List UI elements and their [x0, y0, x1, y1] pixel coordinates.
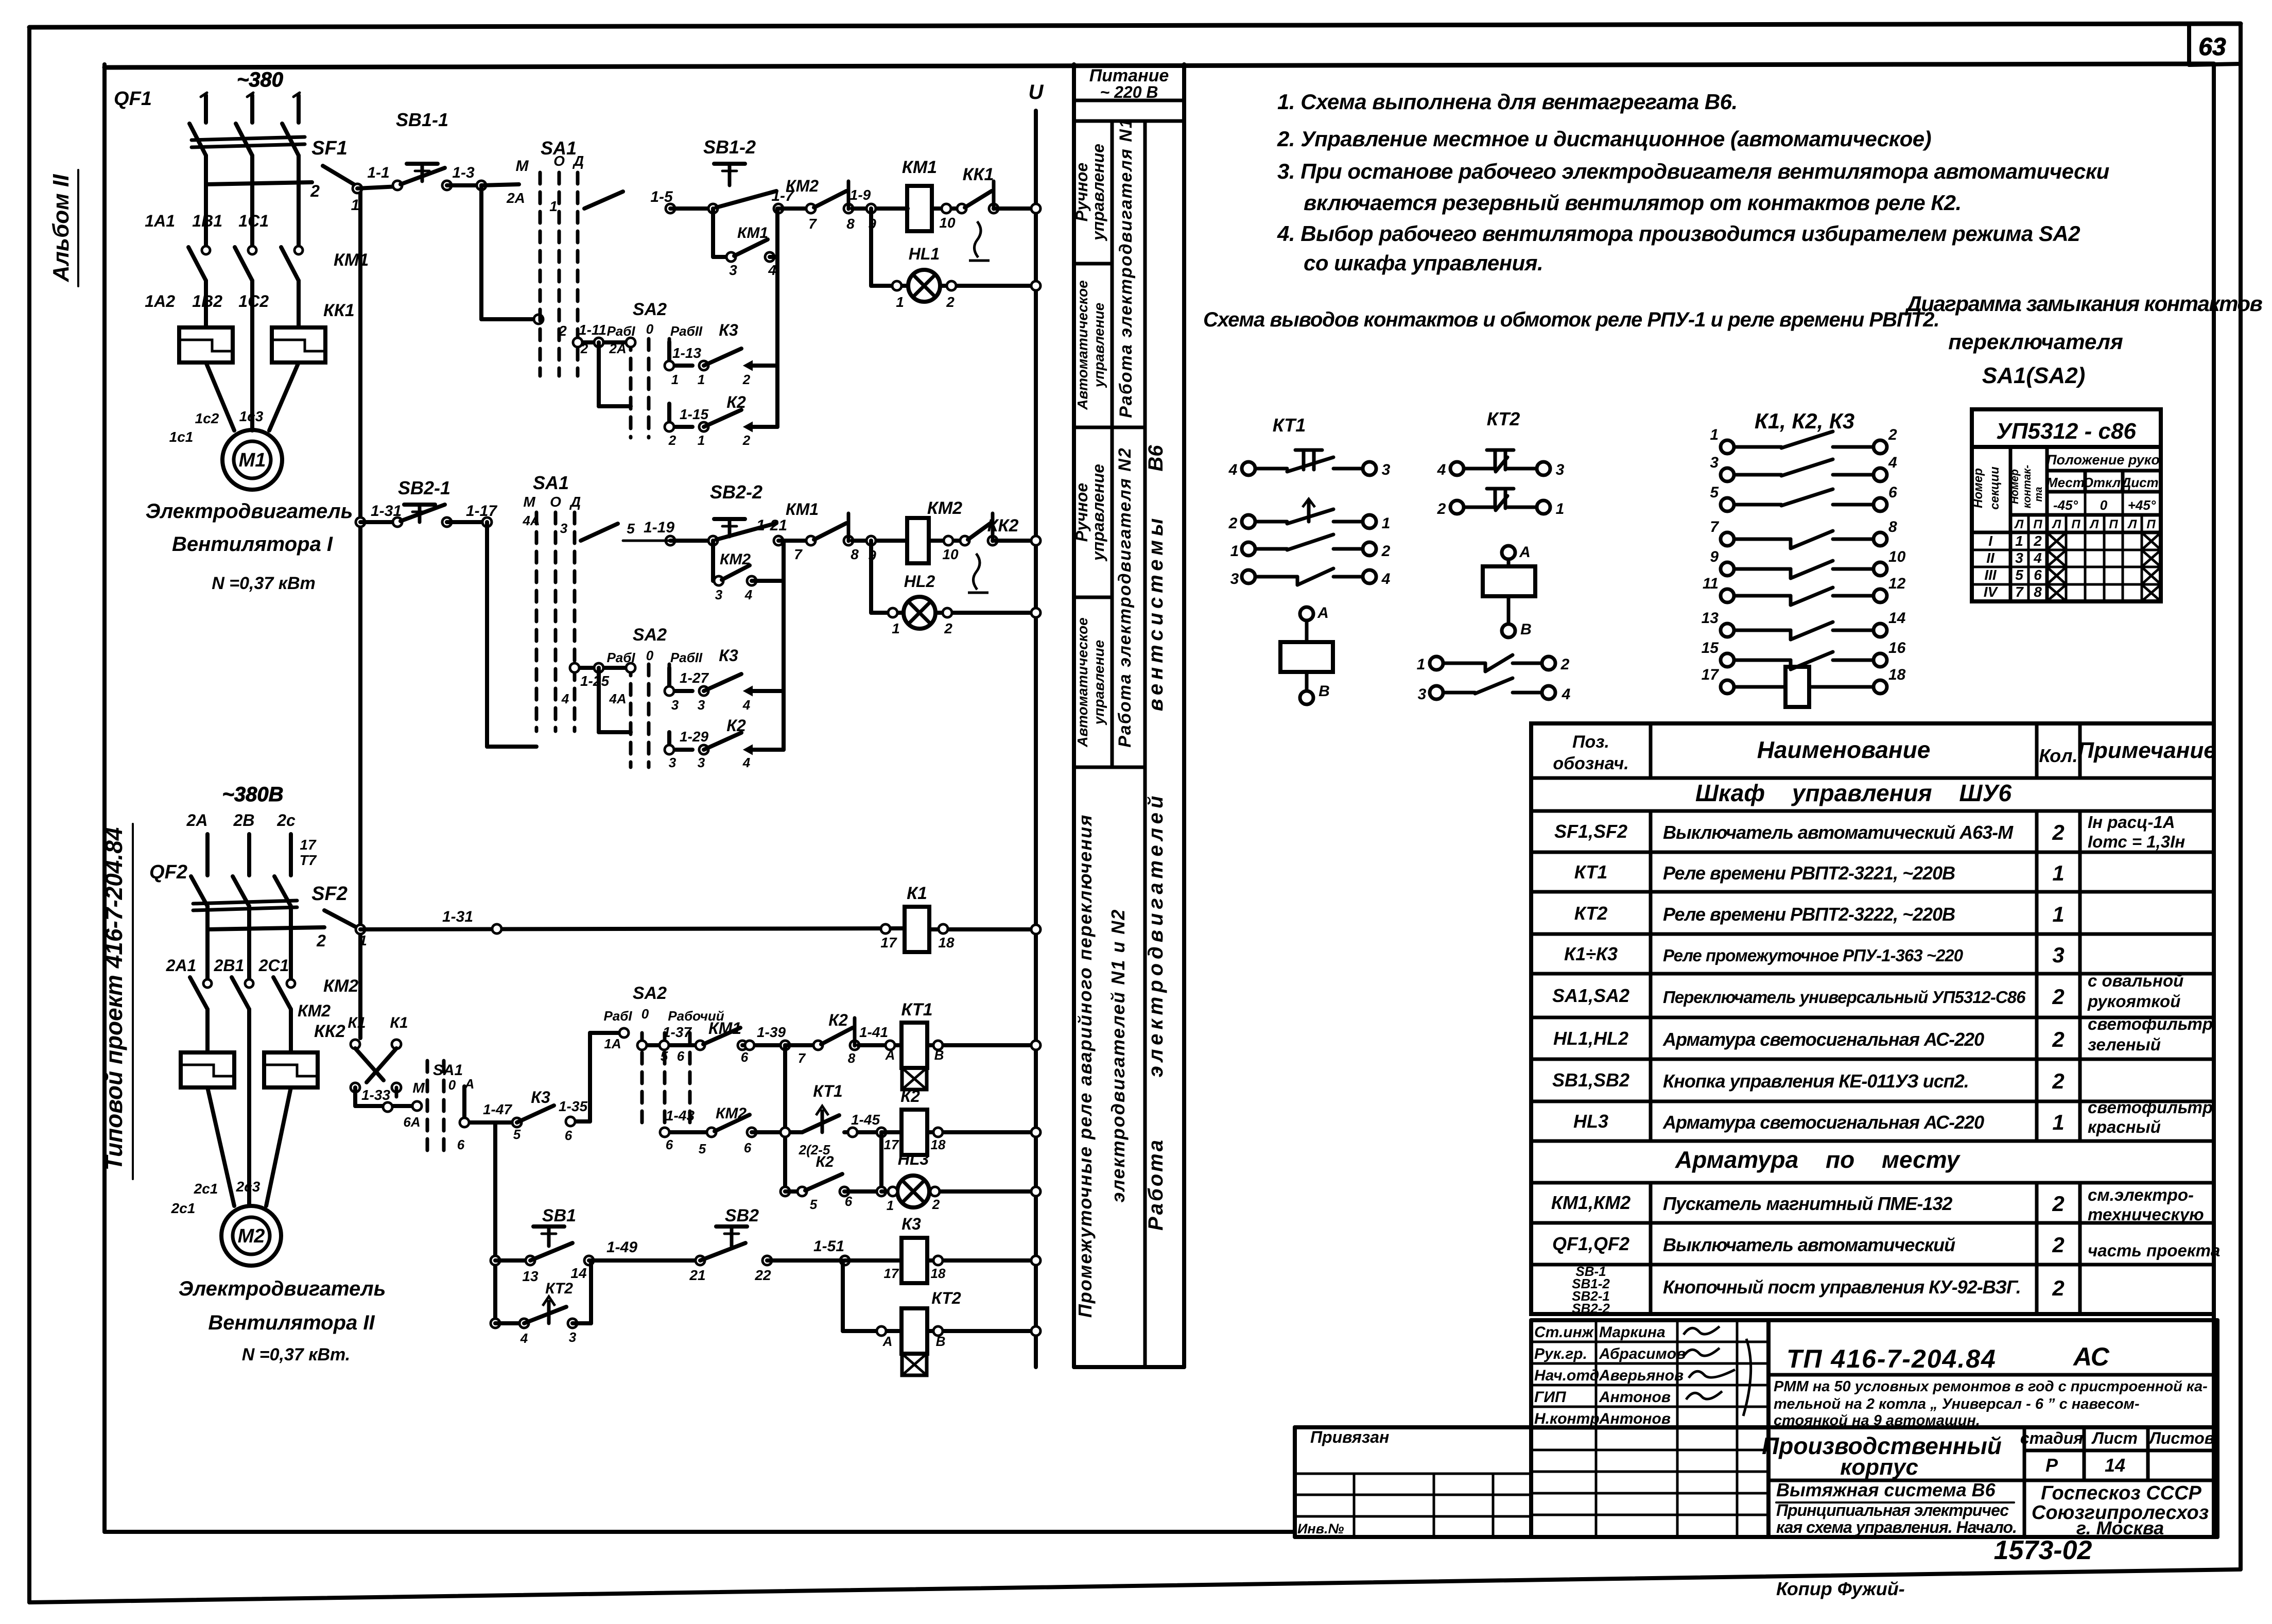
svg-text:SB2-2: SB2-2 [1572, 1301, 1610, 1316]
svg-text:управление: управление [1091, 303, 1107, 388]
svg-text:1А1: 1А1 [145, 212, 175, 230]
svg-text:1-31: 1-31 [371, 503, 402, 520]
svg-text:К1, К2, К3: К1, К2, К3 [1755, 409, 1854, 433]
svg-text:Откл.: Откл. [2083, 475, 2125, 490]
svg-text:КК2: КК2 [314, 1022, 345, 1041]
svg-text:II: II [1986, 550, 1995, 566]
svg-text:SA1: SA1 [433, 1062, 463, 1079]
svg-text:УП5312 - с86: УП5312 - с86 [1996, 419, 2136, 444]
svg-text:К3: К3 [531, 1088, 550, 1107]
svg-text:5: 5 [1710, 484, 1719, 501]
svg-text:SA2: SA2 [633, 983, 667, 1003]
svg-text:А: А [882, 1334, 893, 1349]
svg-text:6: 6 [457, 1137, 465, 1152]
svg-text:2: 2 [316, 931, 326, 950]
svg-text:М1: М1 [239, 450, 266, 471]
svg-text:Номер: Номер [2009, 469, 2021, 504]
svg-text:КМ2: КМ2 [720, 551, 751, 568]
svg-text:13: 13 [522, 1268, 539, 1284]
svg-text:SA1(SA2): SA1(SA2) [1982, 363, 2086, 388]
svg-text:17: 17 [300, 837, 317, 853]
svg-text:3: 3 [671, 697, 679, 713]
svg-text:2: 2 [946, 294, 955, 310]
svg-text:РабII: РабII [670, 323, 703, 339]
svg-text:2с1: 2с1 [171, 1200, 196, 1216]
svg-text:3: 3 [715, 587, 723, 602]
svg-text:вентсистемы: вентсистемы [1144, 514, 1167, 712]
svg-text:Аверьянов: Аверьянов [1599, 1367, 1684, 1384]
svg-text:HL1,HL2: HL1,HL2 [1553, 1028, 1628, 1049]
svg-text:1: 1 [359, 932, 367, 948]
svg-text:18: 18 [1888, 666, 1906, 683]
svg-text:1-29: 1-29 [680, 729, 708, 745]
svg-text:2А1: 2А1 [166, 956, 197, 975]
svg-text:1-15: 1-15 [680, 406, 708, 422]
svg-text:7: 7 [2015, 584, 2024, 600]
svg-text:техническую: техническую [2088, 1205, 2204, 1224]
svg-text:9: 9 [868, 547, 876, 563]
svg-text:Дист.: Дист. [2120, 475, 2162, 490]
svg-text:КМ2: КМ2 [716, 1105, 747, 1122]
svg-text:1А2: 1А2 [145, 292, 175, 310]
svg-text:Р: Р [2045, 1455, 2058, 1476]
svg-text:2: 2 [1381, 543, 1391, 560]
svg-text:Кнопка управления КЕ-011УЗ и: Кнопка управления КЕ-011УЗ исп2. [1663, 1070, 1969, 1092]
svg-text:7: 7 [1710, 519, 1719, 535]
svg-text:SF1: SF1 [311, 137, 348, 159]
svg-text:контак-: контак- [2021, 465, 2033, 508]
svg-text:2с: 2с [276, 811, 296, 830]
svg-text:III: III [1984, 567, 1997, 583]
svg-text:К1: К1 [390, 1014, 408, 1031]
svg-text:3: 3 [669, 755, 677, 770]
svg-text:SA1: SA1 [541, 137, 577, 159]
svg-text:зеленый: зеленый [2088, 1035, 2161, 1054]
svg-text:Лист: Лист [2091, 1429, 2138, 1447]
svg-text:21: 21 [689, 1267, 705, 1283]
svg-text:Шкаф управления ШУ6: Шкаф управления ШУ6 [1695, 780, 2012, 806]
svg-text:17: 17 [880, 935, 897, 951]
svg-text:КТ1: КТ1 [901, 1000, 933, 1020]
svg-text:3: 3 [569, 1329, 577, 1345]
svg-text:~ 220 В: ~ 220 В [1100, 83, 1158, 101]
svg-text:Принципиальная электричес: Принципиальная электричес [1776, 1501, 2009, 1519]
svg-text:Работа электродвигателя N2: Работа электродвигателя N2 [1115, 447, 1135, 747]
svg-text:Листов: Листов [2148, 1429, 2214, 1447]
svg-text:рукояткой: рукояткой [2087, 992, 2180, 1011]
svg-text:7: 7 [798, 1050, 806, 1066]
svg-text:Поз.: Поз. [1572, 732, 1609, 752]
svg-text:светофильтр: светофильтр [2088, 1014, 2213, 1033]
svg-text:3. При останове рабочего эле: 3. При останове рабочего электродвигател… [1277, 159, 2109, 183]
svg-text:К1÷К3: К1÷К3 [1564, 943, 1618, 964]
svg-text:Нач.отд: Нач.отд [1534, 1367, 1599, 1384]
svg-text:2А: 2А [506, 190, 525, 206]
svg-text:Арматура по месту: Арматура по месту [1675, 1146, 1961, 1173]
svg-text:6: 6 [741, 1049, 749, 1065]
svg-text:Привязан: Привязан [1310, 1428, 1389, 1446]
svg-text:1-19: 1-19 [644, 519, 674, 536]
svg-text:1-5: 1-5 [650, 188, 673, 205]
svg-text:5: 5 [699, 1141, 706, 1156]
svg-text:Автоматическое: Автоматическое [1074, 617, 1090, 747]
svg-text:4: 4 [1562, 686, 1571, 703]
svg-text:ТП 416-7-204.84: ТП 416-7-204.84 [1787, 1344, 1997, 1373]
svg-text:1: 1 [698, 372, 705, 387]
svg-text:QF2: QF2 [149, 861, 187, 883]
svg-text:7: 7 [808, 216, 817, 232]
svg-text:О: О [550, 494, 561, 510]
svg-text:3: 3 [698, 697, 705, 713]
svg-text:переключателя: переключателя [1948, 330, 2123, 354]
svg-text:Пускатель магнитный ПМЕ-132: Пускатель магнитный ПМЕ-132 [1663, 1193, 1952, 1214]
svg-text:3: 3 [1710, 454, 1719, 471]
svg-text:1. Схема выполнена для вентаг: 1. Схема выполнена для вентагрегата В6. [1277, 90, 1738, 114]
svg-text:М: М [412, 1080, 425, 1096]
svg-text:тельной на 2 котла „ Универсал: тельной на 2 котла „ Универсал - 6 ” с н… [1774, 1396, 2140, 1412]
svg-text:КМ1: КМ1 [708, 1019, 741, 1038]
svg-text:SB2-2: SB2-2 [710, 481, 762, 503]
svg-text:2. Управление местное и ди: 2. Управление местное и дистанционное (а… [1277, 127, 1931, 151]
svg-text:Т7: Т7 [300, 852, 317, 868]
svg-text:8: 8 [846, 216, 855, 232]
svg-text:2: 2 [932, 1197, 940, 1212]
svg-text:1-41: 1-41 [859, 1024, 888, 1040]
svg-text:Ручное: Ручное [1072, 163, 1091, 221]
svg-text:6А: 6А [403, 1114, 420, 1130]
svg-text:~380В: ~380В [222, 783, 284, 806]
svg-text:1: 1 [896, 294, 904, 310]
svg-text:КМ1: КМ1 [737, 224, 768, 241]
svg-text:12: 12 [1888, 575, 1906, 592]
svg-text:1: 1 [1556, 500, 1565, 517]
svg-text:А: А [885, 1047, 895, 1063]
svg-text:1-17: 1-17 [466, 503, 497, 520]
svg-text:2: 2 [742, 433, 751, 448]
svg-text:К3: К3 [901, 1215, 921, 1233]
svg-text:4: 4 [768, 262, 776, 278]
svg-text:SB1: SB1 [542, 1206, 576, 1225]
svg-text:8: 8 [851, 546, 859, 562]
svg-text:6: 6 [744, 1140, 752, 1155]
svg-text:с овальной: с овальной [2088, 971, 2183, 990]
svg-text:К3: К3 [719, 646, 738, 665]
svg-text:2с3: 2с3 [236, 1179, 261, 1195]
svg-text:2В: 2В [233, 811, 255, 830]
svg-text:6: 6 [565, 1128, 573, 1143]
svg-text:Примечание: Примечание [2077, 738, 2216, 763]
svg-text:управление: управление [1089, 464, 1107, 562]
svg-text:14: 14 [1888, 610, 1906, 627]
svg-text:1: 1 [2052, 861, 2064, 885]
svg-text:SB1,SB2: SB1,SB2 [1552, 1069, 1629, 1091]
svg-text:6: 6 [1888, 484, 1897, 501]
svg-text:3: 3 [698, 755, 705, 770]
svg-text:3: 3 [2015, 550, 2023, 566]
svg-text:К2: К2 [726, 716, 746, 735]
svg-text:Л: Л [2052, 517, 2061, 531]
svg-text:SB1-2: SB1-2 [703, 136, 756, 158]
svg-text:HL2: HL2 [904, 572, 935, 591]
svg-text:15: 15 [1702, 640, 1720, 656]
svg-text:1-37: 1-37 [663, 1024, 692, 1040]
svg-text:1-21: 1-21 [756, 517, 787, 534]
svg-text:Номер: Номер [1971, 468, 1985, 508]
svg-text:9: 9 [1710, 548, 1719, 565]
svg-text:1с1: 1с1 [169, 429, 194, 445]
svg-text:корпус: корпус [1840, 1455, 1918, 1480]
svg-text:0: 0 [646, 648, 654, 663]
svg-text:SB1-1: SB1-1 [396, 109, 448, 130]
svg-text:N =0,37 кВт.: N =0,37 кВт. [242, 1345, 351, 1364]
svg-text:-45°: -45° [2053, 497, 2078, 513]
svg-text:3: 3 [1382, 461, 1391, 478]
svg-text:Электродвигатель: Электродвигатель [146, 500, 353, 523]
svg-text:U: U [1029, 81, 1044, 103]
svg-text:Реле времени РВПТ2-3222, ~2: Реле времени РВПТ2-3222, ~220В [1663, 904, 1955, 925]
svg-text:SA2: SA2 [633, 300, 667, 319]
svg-text:4А: 4А [522, 513, 540, 528]
svg-text:1-3: 1-3 [452, 164, 475, 181]
svg-text:N =0,37 кВт: N =0,37 кВт [212, 574, 316, 593]
svg-text:П: П [2071, 517, 2080, 531]
svg-text:Мест: Мест [2046, 475, 2085, 490]
svg-text:КТ1: КТ1 [813, 1082, 842, 1100]
svg-text:та: та [2033, 487, 2044, 502]
svg-text:2: 2 [668, 433, 677, 448]
svg-text:Госпескоз СССР: Госпескоз СССР [2041, 1482, 2201, 1504]
svg-text:управление: управление [1089, 144, 1107, 241]
svg-text:SF2: SF2 [311, 883, 348, 905]
svg-text:2: 2 [2052, 1069, 2064, 1093]
svg-text:14: 14 [2105, 1455, 2125, 1476]
svg-text:9: 9 [868, 216, 876, 232]
svg-text:SA2: SA2 [633, 625, 667, 645]
svg-text:5: 5 [661, 1048, 668, 1064]
svg-text:2В1: 2В1 [214, 956, 245, 975]
svg-text:обознач.: обознач. [1553, 754, 1628, 773]
svg-text:АС: АС [2072, 1342, 2110, 1371]
svg-text:В: В [934, 1047, 944, 1063]
svg-text:2: 2 [2052, 1027, 2064, 1051]
svg-text:1В1: 1В1 [192, 212, 222, 230]
svg-text:1: 1 [2052, 902, 2064, 926]
svg-text:Выключатель автоматический: Выключатель автоматический [1663, 1234, 1955, 1255]
svg-text:22: 22 [754, 1267, 771, 1283]
svg-text:1А: 1А [604, 1036, 621, 1051]
svg-text:Диаграмма замыкания контактов: Диаграмма замыкания контактов [1905, 291, 2263, 316]
svg-text:КМ1: КМ1 [786, 500, 819, 519]
svg-text:1-51: 1-51 [813, 1238, 844, 1255]
svg-text:К1: К1 [348, 1014, 366, 1031]
svg-text:1573-02: 1573-02 [1994, 1535, 2092, 1565]
svg-text:4: 4 [520, 1331, 528, 1346]
svg-text:1-35: 1-35 [559, 1098, 587, 1114]
svg-text:Арматура светосигнальная АС-22: Арматура светосигнальная АС-220 [1662, 1029, 1984, 1050]
svg-text:В: В [1319, 683, 1330, 700]
svg-text:В: В [936, 1334, 946, 1349]
svg-text:Реле времени РВПТ2-3221, ~220: Реле времени РВПТ2-3221, ~220В [1663, 862, 1955, 884]
svg-text:К2: К2 [828, 1011, 848, 1029]
svg-text:КТ1: КТ1 [1574, 861, 1608, 883]
svg-text:1С2: 1С2 [238, 292, 269, 310]
svg-text:Ручное: Ручное [1072, 483, 1091, 542]
svg-text:11: 11 [1703, 575, 1719, 592]
svg-text:QF1,QF2: QF1,QF2 [1552, 1233, 1629, 1254]
svg-text:РММ на 50 условных ремонтов в: РММ на 50 условных ремонтов в год с прис… [1774, 1378, 2208, 1395]
svg-text:КМ1,КМ2: КМ1,КМ2 [1551, 1192, 1631, 1213]
svg-text:РабI: РабI [606, 323, 635, 339]
svg-text:SB2-1: SB2-1 [398, 477, 450, 498]
svg-text:Антонов: Антонов [1599, 1410, 1671, 1427]
svg-text:SF1,SF2: SF1,SF2 [1554, 821, 1627, 842]
svg-text:2: 2 [2052, 1191, 2064, 1216]
svg-text:IV: IV [1984, 584, 1999, 600]
svg-text:со шкафа управления.: со шкафа управления. [1304, 251, 1543, 275]
svg-text:1-9: 1-9 [850, 187, 871, 203]
svg-text:Копир Фужий-: Копир Фужий- [1776, 1578, 1905, 1599]
svg-text:РабI: РабI [603, 1008, 632, 1024]
svg-text:2: 2 [2052, 1233, 2064, 1257]
svg-text:стадия: стадия [2020, 1429, 2083, 1447]
svg-text:Инв.№: Инв.№ [1297, 1521, 1344, 1536]
svg-text:10: 10 [939, 215, 956, 231]
svg-text:4: 4 [561, 691, 569, 706]
svg-text:+45°: +45° [2128, 497, 2156, 513]
svg-text:КМ1: КМ1 [902, 158, 937, 177]
svg-text:Рук.гр.: Рук.гр. [1534, 1345, 1587, 1362]
svg-text:5: 5 [513, 1127, 521, 1142]
svg-text:А: А [1317, 604, 1329, 621]
svg-text:светофильтр: светофильтр [2088, 1098, 2213, 1117]
svg-text:17: 17 [884, 1266, 899, 1281]
svg-text:Вентилятора I: Вентилятора I [172, 533, 333, 556]
svg-text:К1: К1 [907, 884, 927, 903]
svg-text:электродвигателей: электродвигателей [1144, 792, 1167, 1078]
svg-text:см.электро-: см.электро- [2088, 1185, 2194, 1204]
svg-text:Вентилятора II: Вентилятора II [208, 1311, 375, 1334]
svg-text:~380: ~380 [237, 68, 283, 91]
svg-text:стоянкой на 9 автомашин.: стоянкой на 9 автомашин. [1774, 1412, 1980, 1429]
svg-text:красный: красный [2088, 1117, 2161, 1136]
svg-text:18: 18 [938, 935, 955, 951]
svg-text:2: 2 [2052, 984, 2064, 1009]
svg-text:К3: К3 [719, 321, 738, 339]
svg-text:17: 17 [1702, 666, 1720, 683]
svg-text:2: 2 [310, 182, 320, 200]
svg-text:14: 14 [570, 1265, 587, 1281]
svg-text:6: 6 [845, 1194, 853, 1209]
svg-text:В: В [1520, 621, 1532, 638]
svg-text:1: 1 [351, 197, 360, 214]
svg-text:6: 6 [666, 1137, 673, 1152]
svg-text:1: 1 [671, 372, 679, 387]
svg-text:Ст.инж: Ст.инж [1534, 1324, 1594, 1341]
svg-text:А: А [1519, 544, 1531, 561]
svg-text:П: П [2033, 517, 2042, 531]
svg-text:3: 3 [1556, 461, 1565, 478]
svg-text:КК2: КК2 [987, 516, 1019, 535]
svg-text:КТ2: КТ2 [545, 1280, 573, 1297]
svg-text:Д: Д [569, 494, 581, 510]
svg-text:ГИП: ГИП [1534, 1389, 1567, 1406]
svg-text:4. Выбор рабочего вентилятор: 4. Выбор рабочего вентилятора производит… [1277, 221, 2080, 246]
svg-text:РабII: РабII [670, 650, 703, 665]
svg-text:2: 2 [742, 372, 751, 387]
svg-text:1-27: 1-27 [680, 670, 709, 686]
svg-text:Электродвигатель: Электродвигатель [179, 1277, 386, 1300]
svg-text:К2: К2 [726, 393, 746, 411]
svg-text:4: 4 [742, 697, 751, 713]
svg-text:В6: В6 [1144, 445, 1167, 472]
svg-text:17: 17 [884, 1137, 899, 1152]
svg-text:электродвигателей N1 и N2: электродвигателей N1 и N2 [1107, 909, 1129, 1203]
svg-text:4: 4 [742, 755, 751, 770]
svg-text:HL3: HL3 [898, 1150, 929, 1168]
svg-text:1С1: 1С1 [238, 212, 269, 230]
svg-text:2С1: 2С1 [258, 956, 289, 975]
svg-text:Iотс = 1,3Iн: Iотс = 1,3Iн [2088, 832, 2185, 851]
svg-text:КК1: КК1 [323, 301, 355, 320]
svg-text:1-1: 1-1 [367, 164, 389, 181]
svg-text:Кнопочный пост управления КУ: Кнопочный пост управления КУ-92-ВЗГ. [1663, 1276, 2021, 1298]
svg-text:3: 3 [1418, 686, 1427, 703]
svg-text:2: 2 [1437, 500, 1446, 517]
svg-text:Альбом II: Альбом II [48, 174, 74, 282]
svg-text:П: П [2109, 517, 2118, 531]
svg-text:2: 2 [2052, 1276, 2064, 1300]
svg-text:М: М [523, 494, 535, 510]
svg-text:3: 3 [560, 521, 568, 536]
svg-text:4: 4 [2033, 550, 2042, 566]
svg-text:4А: 4А [609, 691, 626, 706]
svg-text:I: I [1988, 533, 1993, 549]
svg-text:63: 63 [2198, 33, 2226, 61]
svg-text:1-47: 1-47 [483, 1101, 512, 1117]
svg-text:КТ2: КТ2 [1487, 408, 1520, 429]
svg-text:1: 1 [549, 198, 558, 214]
svg-text:18: 18 [931, 1137, 946, 1152]
svg-text:0: 0 [448, 1077, 456, 1093]
svg-text:10: 10 [942, 546, 959, 562]
svg-text:А: А [464, 1076, 475, 1092]
svg-text:3: 3 [729, 262, 737, 278]
svg-text:Iн расц-1А: Iн расц-1А [2088, 813, 2175, 832]
svg-text:6: 6 [2034, 567, 2042, 583]
svg-text:5: 5 [2015, 567, 2023, 583]
svg-text:1: 1 [1230, 543, 1239, 560]
svg-text:8: 8 [2034, 584, 2042, 600]
svg-text:1: 1 [2015, 533, 2023, 549]
svg-text:КТ1: КТ1 [1273, 414, 1306, 436]
svg-text:включается резервный вентилят: включается резервный вентилятор от конта… [1304, 191, 1962, 215]
svg-text:1: 1 [1417, 656, 1426, 673]
svg-text:4: 4 [1437, 461, 1446, 478]
svg-text:Абрасимов: Абрасимов [1599, 1345, 1686, 1362]
svg-text:КМ1: КМ1 [334, 250, 369, 270]
svg-text:4: 4 [1888, 454, 1897, 471]
svg-text:Переключатель универсальный УП: Переключатель универсальный УП5312-С86 [1663, 988, 2026, 1007]
svg-text:SA1: SA1 [533, 472, 569, 493]
svg-text:0: 0 [2100, 497, 2108, 513]
svg-text:SB2: SB2 [725, 1206, 759, 1225]
svg-text:КК1: КК1 [963, 165, 994, 184]
svg-text:часть проекта: часть проекта [2088, 1241, 2220, 1260]
svg-text:КТ2: КТ2 [931, 1289, 961, 1307]
svg-text:8: 8 [1888, 519, 1897, 535]
svg-text:Реле промежуточное РПУ-1-363: Реле промежуточное РПУ-1-363 ~220 [1663, 946, 1964, 965]
svg-text:0: 0 [646, 321, 654, 337]
